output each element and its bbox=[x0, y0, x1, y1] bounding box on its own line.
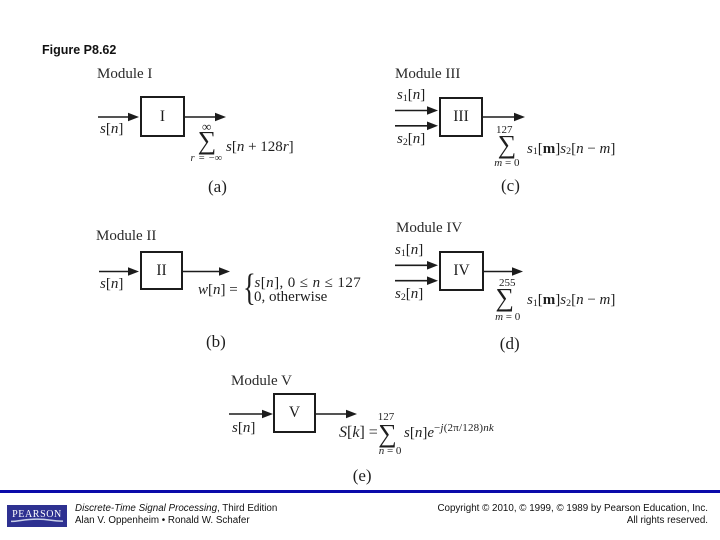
formula s1[m]s2[n-m] bottom right bbox=[527, 293, 615, 308]
brace of w[n] definition bbox=[243, 269, 256, 307]
wire: module III output arrow bbox=[483, 113, 525, 122]
wire: module II input arrow bbox=[99, 267, 139, 276]
label (d) bbox=[500, 336, 520, 351]
sum sigma V bbox=[378, 421, 397, 447]
module IV label bbox=[396, 220, 462, 237]
sum upper limit 127 bbox=[496, 125, 513, 136]
block II bbox=[140, 251, 183, 290]
wire: module I output arrow bbox=[185, 113, 226, 122]
title Figure P8.62 bbox=[42, 43, 116, 57]
wire: module V output arrow bbox=[316, 410, 357, 419]
node s1[n] input of module IV bbox=[395, 243, 423, 258]
wire: module IV output arrow bbox=[484, 267, 523, 276]
sum lower limit r = -inf bbox=[191, 154, 223, 165]
sum sigma III bbox=[498, 132, 517, 158]
block I bbox=[140, 96, 185, 137]
formula s1[m]s2[n-m] top right bbox=[527, 142, 615, 157]
sum upper limit infinity bbox=[202, 120, 211, 133]
sum lower limit m = 0 bbox=[495, 312, 520, 323]
module II label bbox=[96, 228, 156, 245]
label (c) bbox=[501, 178, 520, 193]
wire: module III input arrow s2 bbox=[395, 122, 438, 131]
block IV bbox=[439, 251, 484, 291]
wire: module I input arrow bbox=[98, 113, 139, 122]
formula s[n]e^-j(2pi/128)nk bbox=[404, 426, 494, 442]
block V bbox=[273, 393, 316, 433]
module I label bbox=[97, 66, 152, 83]
sum upper limit 127 bbox=[378, 412, 395, 423]
wire: module IV input arrow s2 bbox=[395, 276, 438, 285]
footer book title bbox=[75, 503, 277, 528]
formula s[n+128r] bbox=[226, 140, 294, 155]
label (b) bbox=[206, 334, 226, 349]
footer copyright bbox=[420, 503, 708, 528]
formula w[n] definition bbox=[198, 283, 238, 298]
module V label bbox=[231, 373, 292, 390]
Pearson logo bbox=[7, 505, 67, 528]
formula case 1 bbox=[255, 276, 362, 291]
node s[n] input of module I bbox=[100, 122, 123, 137]
sum lower limit n = 0 bbox=[379, 446, 402, 457]
label (e) bbox=[353, 468, 372, 483]
sum sigma I bbox=[198, 128, 217, 154]
wire: module IV input arrow s1 bbox=[395, 261, 438, 270]
node s2[n] input of module III bbox=[397, 132, 425, 147]
sum sigma IV bbox=[496, 285, 515, 311]
block III bbox=[439, 97, 483, 137]
node s1[n] input of module III bbox=[397, 88, 425, 103]
wire: module II output arrow bbox=[183, 267, 230, 276]
node s[n] input of module V bbox=[232, 421, 255, 436]
node s2[n] input of module IV bbox=[395, 287, 423, 302]
label (a) bbox=[208, 179, 227, 194]
sum lower limit m = 0 bbox=[494, 158, 519, 169]
module III label bbox=[395, 66, 460, 83]
sum upper limit 255 bbox=[499, 278, 516, 289]
node s[n] input of module II bbox=[100, 277, 123, 292]
footer divider blue rule bbox=[0, 490, 720, 493]
wire: module III input arrow s1 bbox=[395, 106, 438, 115]
formula S[k] equals bbox=[339, 425, 378, 440]
wire: module V input arrow bbox=[229, 410, 273, 419]
formula case 2 bbox=[254, 290, 327, 305]
